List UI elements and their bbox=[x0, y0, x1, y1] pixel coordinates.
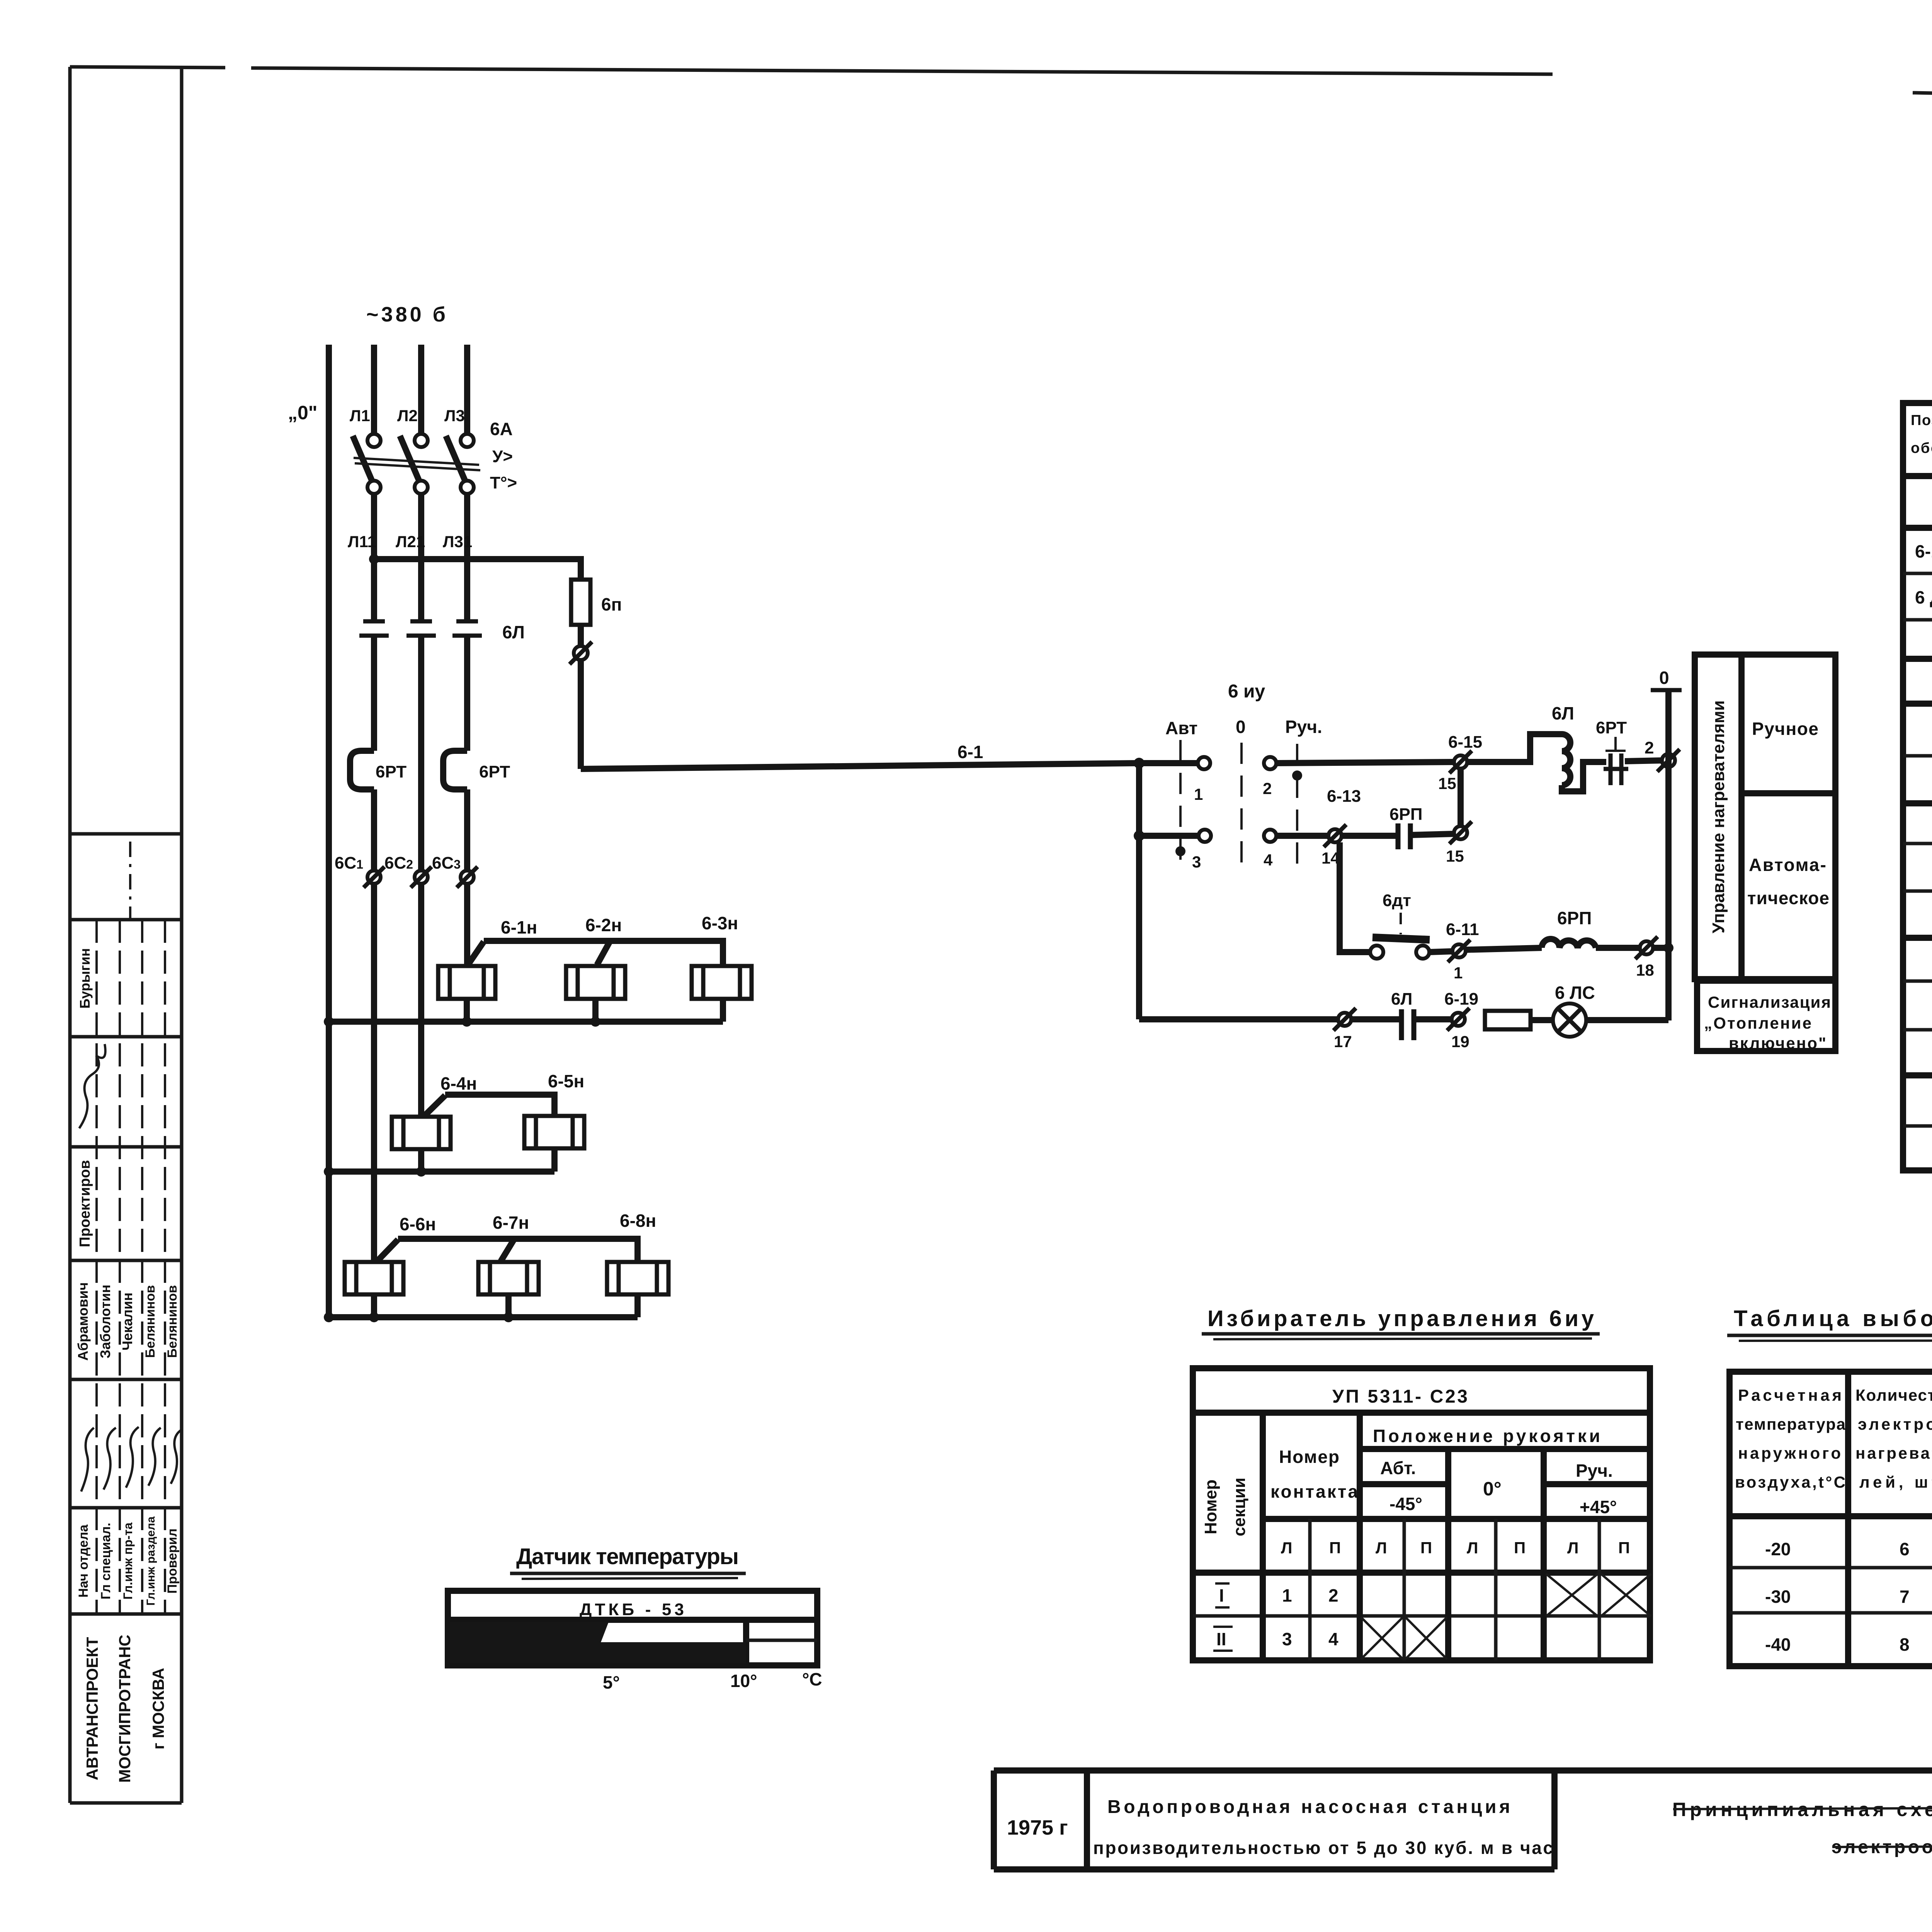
svg-text:-30: -30 bbox=[1765, 1587, 1791, 1607]
page left border bbox=[68, 67, 72, 1803]
svg-text:обозначение: обозначение bbox=[1911, 440, 1932, 456]
wire row1 diag stub 1 bbox=[468, 942, 484, 965]
wire 6-13 to 6RP contact bbox=[1342, 833, 1396, 839]
wire row1 bottom bus bbox=[329, 1019, 723, 1025]
svg-text:Л3: Л3 bbox=[444, 406, 465, 425]
svg-text:наружного: наружного bbox=[1738, 1444, 1841, 1462]
svg-text:нагревате-: нагревате- bbox=[1855, 1444, 1932, 1462]
svg-text:19: 19 bbox=[1451, 1032, 1469, 1051]
svg-text:3: 3 bbox=[1192, 853, 1201, 871]
svg-text:+45°: +45° bbox=[1580, 1497, 1617, 1517]
title block verticals bbox=[994, 1770, 1932, 1869]
svg-text:„0": „0" bbox=[288, 402, 318, 423]
svg-text:1: 1 bbox=[1454, 964, 1463, 982]
wire 0 bus vertical bbox=[326, 345, 332, 1317]
svg-text:6-19: 6-19 bbox=[1444, 990, 1478, 1009]
sensor black band mid bbox=[601, 1642, 746, 1663]
svg-text:Избиратель управления 6иу: Избиратель управления 6иу bbox=[1207, 1306, 1594, 1331]
wire link 15 up to 6-15 bbox=[1458, 762, 1464, 827]
wire row2 bottom bus bbox=[329, 1168, 554, 1175]
svg-text:6-1: 6-1 bbox=[957, 742, 983, 762]
wire phase L1 top bbox=[371, 345, 377, 434]
svg-text:6-13: 6-13 bbox=[1327, 787, 1361, 806]
horizontal rules bbox=[1903, 473, 1932, 479]
svg-text:Номер: Номер bbox=[1201, 1480, 1220, 1534]
sensor 6DT dashed stub bbox=[1400, 913, 1402, 934]
svg-text:Гл.инж раздела: Гл.инж раздела bbox=[145, 1516, 157, 1605]
junction row3 bus h7 bbox=[503, 1312, 514, 1322]
marker dot Ruch bbox=[1292, 770, 1302, 781]
wire phase L3 mid bbox=[464, 494, 470, 621]
svg-text:6РП: 6РП bbox=[1389, 805, 1422, 824]
wire lamp to bus bbox=[1586, 1017, 1668, 1023]
wire phase L2 below 6L bbox=[418, 636, 424, 871]
strike lines bbox=[1673, 1808, 1932, 1847]
svg-text:0: 0 bbox=[1659, 668, 1669, 688]
svg-text:6-7н: 6-7н bbox=[493, 1213, 529, 1233]
wire resistor to lamp bbox=[1531, 1017, 1553, 1023]
net 0 bar bbox=[1651, 688, 1682, 692]
svg-text:секции: секции bbox=[1230, 1478, 1249, 1536]
coil 6L (contactor coil) bbox=[1562, 734, 1570, 785]
svg-text:г МОСКВА: г МОСКВА bbox=[149, 1668, 167, 1749]
wire row3 top bus bbox=[398, 1239, 638, 1262]
junction row2 bus at 0 bbox=[324, 1167, 334, 1177]
wire row1 top bus bbox=[484, 941, 723, 966]
thermal relay 6RT element phase1 bbox=[350, 751, 374, 789]
junction row2 bus h4 bbox=[416, 1167, 426, 1177]
wire 18 to bus bbox=[1653, 945, 1668, 951]
wire row2 top bus bbox=[445, 1095, 554, 1116]
svg-text:П: П bbox=[1420, 1539, 1432, 1557]
svg-text:2: 2 bbox=[1263, 779, 1272, 798]
svg-text:Положение рукоятки: Положение рукоятки bbox=[1373, 1426, 1600, 1446]
sensor contact 6DT bbox=[1370, 937, 1430, 959]
svg-text:Гл.инж пр-та: Гл.инж пр-та bbox=[121, 1522, 135, 1600]
heater 6-5n body bbox=[524, 1116, 584, 1148]
svg-text:Руч.: Руч. bbox=[1576, 1461, 1613, 1481]
svg-text:1975 г: 1975 г bbox=[1007, 1816, 1068, 1839]
svg-text:Номер: Номер bbox=[1279, 1447, 1339, 1467]
fuse 6p body bbox=[571, 580, 590, 625]
wire to contact 3 bbox=[1139, 833, 1199, 839]
marker dot Avt bbox=[1175, 846, 1185, 856]
breaker 6A pole 1 bbox=[353, 434, 381, 494]
wire 6-11 to coil 6RP bbox=[1466, 948, 1542, 950]
svg-text:6РП: 6РП bbox=[1557, 908, 1592, 928]
switch 6IU dashed axis 0 bbox=[1240, 743, 1243, 870]
wire 6RP contact to terminal 15 bbox=[1410, 834, 1454, 835]
wire phase L2 top bbox=[418, 345, 424, 434]
svg-text:Заболотин: Заболотин bbox=[97, 1285, 113, 1359]
selector frame bbox=[1193, 1368, 1650, 1660]
svg-text:18: 18 bbox=[1636, 961, 1654, 979]
svg-text:Белянинов: Белянинов bbox=[165, 1285, 180, 1358]
svg-text:Л: Л bbox=[1281, 1539, 1292, 1557]
sensor box bbox=[448, 1591, 817, 1665]
junction control bus row2 bbox=[1134, 830, 1145, 841]
svg-text:Управление нагревателями: Управление нагревателями bbox=[1709, 700, 1728, 933]
panel divider horizontal bbox=[1742, 790, 1835, 796]
heater 6-2n body bbox=[566, 966, 625, 999]
svg-text:производительностью от 5 до: производительностью от 5 до 30 куб. м в … bbox=[1093, 1838, 1553, 1858]
junction on L1 for control tap bbox=[369, 554, 379, 564]
heater 6-1n body bbox=[438, 966, 495, 999]
contactor 6L main contact pole3 bbox=[452, 621, 482, 636]
svg-text:6РТ: 6РТ bbox=[376, 762, 406, 781]
svg-text:Л11: Л11 bbox=[348, 532, 376, 551]
svg-text:электро -: электро - bbox=[1858, 1415, 1932, 1433]
svg-text:Абрамович: Абрамович bbox=[75, 1282, 91, 1361]
wire 6-13 down to 6DT bbox=[1340, 842, 1371, 952]
wire phase L1 mid bbox=[371, 494, 377, 621]
svg-text:2: 2 bbox=[1328, 1585, 1338, 1605]
wire phase L2 lower bbox=[418, 884, 424, 1117]
terminal 6-15 bbox=[1449, 751, 1472, 773]
thermal contact 6RT bbox=[1604, 737, 1628, 785]
terminal 6C2 bbox=[411, 867, 432, 888]
svg-text:П: П bbox=[1618, 1539, 1630, 1557]
svg-text:Л: Л bbox=[1376, 1539, 1387, 1557]
svg-text:П: П bbox=[1514, 1539, 1526, 1557]
wire phase L2 mid bbox=[418, 494, 424, 621]
terminal 6-19 bbox=[1447, 1008, 1469, 1031]
breaker 6A pole 3 bbox=[446, 434, 474, 494]
wire row3 diag stub 1 bbox=[377, 1240, 398, 1261]
resistor ballast bbox=[1485, 1011, 1531, 1029]
wire right bus vertical bbox=[1665, 690, 1672, 1020]
svg-text:Авт: Авт bbox=[1165, 718, 1197, 738]
svg-text:6-6н: 6-6н bbox=[400, 1214, 436, 1234]
svg-text:Расчетная: Расчетная bbox=[1738, 1386, 1842, 1404]
wire row3 diag stub 2 bbox=[501, 1240, 514, 1261]
svg-text:У>: У> bbox=[492, 447, 513, 466]
svg-text:1: 1 bbox=[1194, 785, 1203, 803]
svg-text:Сигнализация: Сигнализация bbox=[1708, 993, 1831, 1011]
svg-text:6 иу: 6 иу bbox=[1228, 681, 1265, 702]
svg-text:6РТ: 6РТ bbox=[1596, 718, 1627, 737]
svg-text:15: 15 bbox=[1446, 847, 1464, 865]
svg-text:включено": включено" bbox=[1729, 1034, 1826, 1052]
svg-text:II: II bbox=[1216, 1629, 1226, 1649]
svg-text:6 ЛС: 6 ЛС bbox=[1555, 983, 1595, 1003]
svg-text:6 дт: 6 дт bbox=[1915, 587, 1932, 607]
wire coil to 6RT contact bbox=[1562, 762, 1606, 791]
svg-text:Нач отдела: Нач отдела bbox=[76, 1524, 91, 1597]
svg-text:Л31: Л31 bbox=[443, 532, 472, 551]
wire contact 2 to 6-15 bbox=[1276, 762, 1454, 763]
relay contact 6RP (NO) bbox=[1398, 823, 1410, 849]
svg-text:6-11: 6-11 bbox=[1446, 920, 1479, 939]
wire phase L1 lower bbox=[371, 884, 377, 1262]
heater 6-6n body bbox=[345, 1262, 403, 1294]
wire phase L1 below 6L bbox=[371, 636, 377, 751]
svg-text:-45°: -45° bbox=[1389, 1494, 1422, 1514]
svg-text:Гл специал.: Гл специал. bbox=[99, 1523, 113, 1600]
heater 6-3n body bbox=[692, 966, 752, 999]
svg-text:-40: -40 bbox=[1765, 1634, 1791, 1655]
svg-text:6Л: 6Л bbox=[1391, 990, 1412, 1009]
stamp column right border bbox=[180, 68, 184, 1803]
svg-text:5°: 5° bbox=[603, 1672, 620, 1692]
wire below fuse bbox=[578, 625, 584, 646]
svg-text:6-3н: 6-3н bbox=[702, 913, 738, 933]
table frame bbox=[1903, 403, 1932, 1170]
junction right bus bbox=[1663, 943, 1673, 953]
thermal relay 6RT element phase3 bbox=[443, 751, 467, 789]
wire 17 to 6L aux bbox=[1351, 1016, 1400, 1022]
svg-text:1: 1 bbox=[1282, 1585, 1292, 1605]
switch 6IU dashed axis Ruch bbox=[1296, 744, 1298, 866]
wire phase L3 lower bbox=[464, 884, 470, 966]
svg-text:15: 15 bbox=[1438, 774, 1456, 793]
terminal 18 bbox=[1635, 937, 1658, 959]
title block bottom left bbox=[994, 1866, 1554, 1872]
svg-text:Водопроводная насосная станц: Водопроводная насосная станция bbox=[1107, 1797, 1510, 1817]
svg-text:МОСГИПРОТРАНС: МОСГИПРОТРАНС bbox=[116, 1634, 134, 1782]
svg-text:Автома-: Автома- bbox=[1749, 855, 1826, 875]
svg-text:Проверил: Проверил bbox=[165, 1529, 180, 1594]
terminal 6C1 bbox=[364, 867, 384, 888]
wire phase L3 top bbox=[464, 345, 470, 434]
junction row1 bus at 0 bbox=[324, 1017, 334, 1027]
svg-text:6РТ: 6РТ bbox=[479, 762, 510, 781]
svg-text:6-1н: 6-1н bbox=[501, 917, 537, 937]
heater 6-8n body bbox=[607, 1262, 668, 1294]
svg-text:Бурыгин: Бурыгин bbox=[77, 948, 93, 1009]
terminal 15 bbox=[1449, 821, 1472, 844]
junction control bus top bbox=[1134, 758, 1145, 769]
wire row2 bottom stubs bbox=[421, 1148, 554, 1172]
heater table frame bbox=[1730, 1372, 1932, 1666]
svg-text:6-2н: 6-2н bbox=[585, 915, 622, 935]
wire 6-15 to coil 6L bbox=[1467, 734, 1562, 762]
terminal 6-11 bbox=[1448, 940, 1470, 962]
sensor black band left bbox=[450, 1622, 609, 1663]
signal panel box bbox=[1697, 981, 1835, 1051]
junction row1 bus h2 bbox=[590, 1017, 600, 1027]
heater 6-7n body bbox=[478, 1262, 539, 1294]
wire 6RT to terminal 2 bbox=[1625, 760, 1662, 761]
wire control feed down bbox=[578, 660, 584, 769]
wire 6L aux to 6-19 bbox=[1413, 1016, 1452, 1022]
wire row3 bottom bus bbox=[329, 1314, 638, 1320]
heater 6-4n body bbox=[392, 1117, 451, 1149]
svg-text:17: 17 bbox=[1334, 1032, 1352, 1051]
svg-text:6-1н÷: 6-1н÷ bbox=[1915, 541, 1932, 561]
svg-text:Белянинов: Белянинов bbox=[143, 1285, 158, 1358]
wire row3 bottom stubs bbox=[374, 1294, 638, 1317]
svg-text:Л: Л bbox=[1567, 1539, 1578, 1557]
svg-text:6-15: 6-15 bbox=[1448, 733, 1482, 752]
svg-text:Л: Л bbox=[1467, 1539, 1478, 1557]
wire row1 diag stub 2 bbox=[597, 942, 610, 965]
wire contact 4 to 6-13 bbox=[1276, 833, 1328, 839]
svg-text:0°: 0° bbox=[1483, 1478, 1502, 1500]
svg-text:Количество: Количество bbox=[1855, 1386, 1932, 1404]
panel divider vertical bbox=[1738, 655, 1745, 979]
svg-text:6: 6 bbox=[1900, 1539, 1910, 1559]
wire control tap horizontal bbox=[374, 559, 581, 580]
svg-text:0: 0 bbox=[1236, 717, 1246, 737]
svg-text:тическое: тическое bbox=[1747, 888, 1829, 908]
svg-text:6дт: 6дт bbox=[1383, 891, 1411, 910]
breaker 6A pole 2 bbox=[400, 434, 428, 494]
svg-text:7: 7 bbox=[1900, 1587, 1910, 1607]
wire control left bus vertical bbox=[1136, 763, 1142, 1019]
contactor 6L main contact pole1 bbox=[359, 621, 389, 636]
junction row3 bus h6 bbox=[369, 1312, 379, 1322]
junction row1 bus h1 bbox=[462, 1017, 472, 1027]
svg-text:Л2: Л2 bbox=[397, 406, 418, 425]
svg-text:Проектиров: Проектиров bbox=[77, 1160, 93, 1247]
switch 6IU dashed axis Avt bbox=[1179, 740, 1182, 863]
svg-text:4: 4 bbox=[1264, 851, 1273, 869]
svg-text:ДТКБ - 53: ДТКБ - 53 bbox=[580, 1600, 684, 1619]
svg-text:10°: 10° bbox=[730, 1671, 757, 1691]
svg-text:8: 8 bbox=[1900, 1634, 1910, 1655]
stamp table bbox=[70, 834, 182, 1803]
contactor 6L main contact pole2 bbox=[406, 621, 436, 636]
svg-text:Чекалин: Чекалин bbox=[119, 1293, 135, 1350]
switch contact 3 bbox=[1199, 830, 1211, 842]
svg-text:4: 4 bbox=[1328, 1629, 1338, 1649]
wire to contact 1 bbox=[1139, 760, 1198, 766]
page top border line bbox=[70, 67, 1932, 116]
svg-text:6-8н: 6-8н bbox=[620, 1211, 656, 1231]
title block top line bbox=[994, 1767, 1932, 1774]
breaker 6A tie bar bbox=[354, 458, 480, 470]
coil 6RP (relay) bbox=[1542, 939, 1596, 948]
svg-text:температура: температура bbox=[1736, 1415, 1846, 1433]
svg-text:6А: 6А bbox=[490, 419, 513, 439]
switch contact 2 bbox=[1264, 757, 1276, 769]
svg-text:~380 б: ~380 б bbox=[366, 303, 446, 326]
svg-text:6Л: 6Л bbox=[1552, 703, 1574, 723]
svg-text:Руч.: Руч. bbox=[1285, 717, 1322, 737]
wire lamp row left bbox=[1139, 1016, 1338, 1022]
svg-text:6Л: 6Л bbox=[502, 622, 525, 642]
switch contact 4 bbox=[1264, 830, 1276, 842]
svg-text:-20: -20 bbox=[1765, 1539, 1791, 1559]
wire phase L1 to 6C1 bbox=[371, 789, 377, 871]
svg-text:Датчик температуры: Датчик температуры bbox=[516, 1544, 739, 1569]
wire phase L3 below 6L bbox=[464, 636, 470, 751]
lamp 6LS bbox=[1553, 1003, 1586, 1037]
svg-text:Л1: Л1 bbox=[350, 406, 370, 425]
terminal 6-13 bbox=[1324, 825, 1346, 847]
svg-text:6-4н: 6-4н bbox=[440, 1073, 477, 1094]
switch contact 1 bbox=[1198, 757, 1210, 769]
wire row1 bottom stubs bbox=[467, 999, 723, 1022]
svg-text:П: П bbox=[1329, 1539, 1341, 1557]
svg-text:2: 2 bbox=[1645, 738, 1654, 757]
svg-text:Л21: Л21 bbox=[396, 532, 425, 551]
svg-text:°С: °С bbox=[802, 1669, 822, 1689]
svg-text:Т°>: Т°> bbox=[490, 473, 517, 492]
svg-text:6п: 6п bbox=[601, 594, 622, 614]
terminal 17 bbox=[1333, 1008, 1356, 1031]
svg-text:I: I bbox=[1219, 1585, 1224, 1605]
aux contact 6L bbox=[1401, 1009, 1414, 1040]
wire phase L3 to 6C3 bbox=[464, 789, 470, 871]
svg-text:УП 5311- С23: УП 5311- С23 bbox=[1332, 1386, 1468, 1407]
svg-text:АВТРАНСПРОЕКТ: АВТРАНСПРОЕКТ bbox=[83, 1637, 101, 1780]
wire coil 6RP to 18 bbox=[1596, 945, 1640, 951]
svg-text:3: 3 bbox=[1282, 1629, 1292, 1649]
terminal 2 bbox=[1657, 749, 1680, 772]
wire 6DT to 6-11 bbox=[1429, 951, 1452, 952]
panel box bbox=[1695, 655, 1835, 979]
svg-text:Абт.: Абт. bbox=[1380, 1458, 1416, 1478]
terminal 6C3 bbox=[457, 867, 478, 888]
wire row2 diag stub bbox=[424, 1095, 445, 1116]
svg-text:6-5н: 6-5н bbox=[548, 1071, 584, 1091]
junction row3 bus at 0 bbox=[324, 1312, 334, 1322]
wire 6-1 long horizontal bbox=[581, 763, 1139, 769]
terminal on control feed bbox=[570, 642, 592, 664]
